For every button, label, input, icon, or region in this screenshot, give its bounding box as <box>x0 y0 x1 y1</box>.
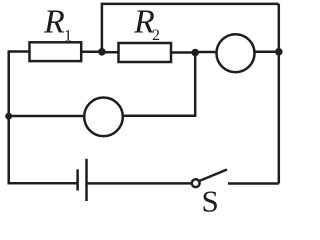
svg-text:1: 1 <box>64 27 72 44</box>
wire switch contact to right rail <box>228 182 279 185</box>
wire bottom left to battery <box>9 182 78 185</box>
switch S pivot circle <box>192 179 200 187</box>
wire R1 to node A <box>81 51 102 54</box>
svg-text:2: 2 <box>152 27 160 44</box>
node B junction dot <box>191 49 199 57</box>
wire meter M2 to riser <box>123 53 195 116</box>
wire top loop horizontal <box>102 4 279 52</box>
meter M2 (circle, middle) <box>84 98 123 137</box>
svg-text:S: S <box>202 184 219 215</box>
node D junction dot (left rail) <box>5 113 12 120</box>
battery cell (long plate) <box>85 159 88 201</box>
node C junction dot <box>275 48 283 56</box>
resistor R1 <box>30 42 82 61</box>
wire meter M1 to node C <box>255 51 279 54</box>
wire node B to meter M1 <box>195 51 216 54</box>
wire left to R1 <box>8 50 30 53</box>
meter M1 (circle, top right) <box>217 34 255 72</box>
wire battery to switch <box>87 182 192 185</box>
switch S lever arm <box>199 170 227 182</box>
wire left rail <box>7 52 10 185</box>
wire right rail <box>278 4 281 184</box>
resistor R2 <box>119 43 172 62</box>
wire R2 to node B <box>171 51 195 54</box>
node A junction dot <box>98 48 106 56</box>
wire node A to R2 <box>102 51 119 54</box>
svg-text:R: R <box>43 4 65 41</box>
label R2 <box>133 4 160 45</box>
wire node D to meter M2 <box>9 115 85 118</box>
label R1 <box>43 4 72 45</box>
battery cell (short plate) <box>76 169 79 190</box>
